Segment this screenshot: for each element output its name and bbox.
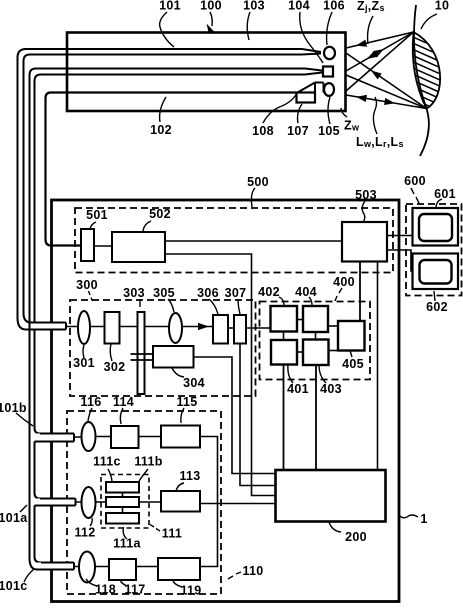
dashed box 600 <box>406 204 462 296</box>
oscillator 405 <box>338 321 365 351</box>
svg-text:116: 116 <box>80 395 101 409</box>
wire fiber 103 pair lower / left tube right line <box>35 73 323 563</box>
driver 502 <box>112 232 165 262</box>
svg-text:111: 111 <box>162 527 182 541</box>
leader 104 <box>300 12 323 63</box>
dashed box 111 <box>101 475 149 529</box>
ferrule bar row 116 <box>36 434 74 442</box>
wire fiber 102 line from 107 down to 501 <box>46 93 297 246</box>
svg-text:101b: 101b <box>0 401 27 415</box>
processor 200 <box>276 470 386 522</box>
leader 10 <box>421 14 437 29</box>
ray arrowhead toward focus Zj <box>373 46 386 57</box>
lens 118 <box>79 552 95 583</box>
detector 107 rect <box>297 93 316 103</box>
filter 403 <box>303 340 329 366</box>
svg-text:118: 118 <box>95 583 116 597</box>
leader 101 <box>160 12 174 47</box>
svg-text:105: 105 <box>318 124 340 138</box>
wire 401 down to 200 <box>283 365 285 471</box>
leader 112 <box>90 518 92 526</box>
wire 503 down to 405 <box>359 262 361 322</box>
leader 304 <box>172 368 184 377</box>
svg-text:307: 307 <box>225 286 247 300</box>
wire 402 to 401 <box>283 332 285 341</box>
leader 502 <box>143 221 151 231</box>
filter 401 <box>271 340 297 365</box>
grating cell 111a <box>106 513 139 524</box>
leader 301 <box>83 345 84 358</box>
dashed box 400 <box>260 302 371 380</box>
svg-text:303: 303 <box>123 286 145 300</box>
leader 101b <box>16 413 33 426</box>
svg-text:502: 502 <box>149 207 171 221</box>
leader 110 dashes <box>228 572 241 579</box>
leader Zj Zs <box>368 16 373 44</box>
leader 105 <box>328 97 330 124</box>
object 10 lens body <box>413 32 440 109</box>
ray arrowhead left lower <box>355 93 367 102</box>
leader 111a <box>123 527 127 539</box>
element 104 square at probe tip <box>323 67 333 77</box>
ferrule bar row 112 <box>36 499 76 506</box>
leader 117 <box>120 580 127 586</box>
leader 103 <box>247 12 250 40</box>
wire 501 to 502 <box>94 245 112 247</box>
svg-text:117: 117 <box>124 583 145 597</box>
svg-text:102: 102 <box>150 123 172 137</box>
block 117 <box>109 559 136 580</box>
ray arrowhead toward Zw lower <box>384 98 396 107</box>
block 113 <box>161 491 200 512</box>
svg-text:404: 404 <box>295 285 317 299</box>
mixer 402 <box>271 306 298 332</box>
amplifier 501 <box>81 229 94 261</box>
svg-text:402: 402 <box>258 285 280 299</box>
ray 105 to lower focus <box>346 95 427 109</box>
svg-text:106: 106 <box>323 0 345 13</box>
svg-text:305: 305 <box>153 286 175 300</box>
lens 112 <box>82 487 96 518</box>
block 119 <box>158 558 200 580</box>
wire 306 to 307 <box>228 327 234 329</box>
leader 404 <box>309 297 312 305</box>
lens 116 <box>82 422 96 451</box>
svg-text:302: 302 <box>104 360 126 374</box>
mirror 108 diagonal <box>298 83 324 103</box>
svg-text:101: 101 <box>159 0 181 13</box>
wire 503 to monitor 602 <box>387 250 413 271</box>
svg-text:Lw,Lr,Ls: Lw,Lr,Ls <box>356 135 404 149</box>
leader 300 dashes <box>89 291 93 301</box>
svg-text:111c: 111c <box>93 455 121 469</box>
grating cell 111c <box>106 482 139 493</box>
ferrule bar into box 300 <box>31 323 66 330</box>
wire row 112 <box>76 501 162 503</box>
leader 113 <box>176 483 184 491</box>
svg-text:119: 119 <box>180 584 201 598</box>
wire 119 to bus <box>200 504 218 567</box>
svg-text:100: 100 <box>200 0 222 13</box>
leader 100 arrow <box>210 12 212 26</box>
leader 1 <box>400 515 418 518</box>
svg-text:103: 103 <box>243 0 265 13</box>
leader 106 <box>327 12 332 45</box>
wire 403 down to 200 <box>315 365 317 470</box>
lens 305 <box>169 313 182 343</box>
svg-text:111a: 111a <box>113 537 141 551</box>
wire 401 to 403 <box>297 351 303 353</box>
leader 601 <box>436 199 442 208</box>
wire 502 down to 200 <box>165 254 276 496</box>
leader 307 <box>238 299 240 314</box>
wire fiber 101 lower line of pair <box>24 54 322 330</box>
ray arrowhead left mid <box>369 68 382 80</box>
wire optical axis in box 300 with arrow <box>66 326 213 328</box>
wire fiber 101 upper pair into probe <box>18 49 322 330</box>
object 10 hatching <box>404 33 449 127</box>
wire 304 to 200 <box>194 357 276 474</box>
svg-text:400: 400 <box>333 275 355 289</box>
svg-text:112: 112 <box>74 526 95 540</box>
svg-text:101c: 101c <box>0 579 28 593</box>
leader 602 <box>434 291 435 301</box>
svg-text:114: 114 <box>113 395 134 409</box>
ray from tip to upper focus Zj <box>346 32 414 48</box>
svg-text:111b: 111b <box>134 455 162 469</box>
main unit box 1 <box>52 200 400 602</box>
wire 303 to 304 link <box>131 354 154 360</box>
wire 115 to bus <box>200 437 218 504</box>
wire 502 to 503 <box>165 240 342 242</box>
ray 104 to upper focus <box>346 32 414 71</box>
leader 600 dashes <box>411 188 419 203</box>
wire 402 to 404 <box>297 319 303 321</box>
leader Zw <box>341 108 347 117</box>
leader 101a <box>20 505 27 512</box>
leader 111 dash <box>150 525 160 532</box>
leader 500 <box>251 188 255 207</box>
lens 301 <box>78 311 90 344</box>
grating cell 111b <box>106 497 139 507</box>
svg-text:403: 403 <box>320 382 342 396</box>
leader 115 <box>181 408 184 423</box>
svg-text:115: 115 <box>176 395 197 409</box>
monitor 601 <box>413 208 459 246</box>
wire 404 to 405 <box>328 325 338 327</box>
wire 503 down to 200 <box>377 262 379 471</box>
svg-text:1: 1 <box>420 512 427 526</box>
modulator 302 <box>105 312 120 344</box>
svg-text:101a: 101a <box>0 511 28 525</box>
filter 306 <box>213 315 228 344</box>
svg-text:300: 300 <box>76 278 98 292</box>
dashed box 110 <box>67 411 221 594</box>
arrowhead in box 300 <box>198 323 209 330</box>
controller 503 <box>342 222 387 262</box>
svg-text:10: 10 <box>435 0 450 13</box>
wire 503 to monitor 601 <box>387 235 413 237</box>
leader Lw Lr Ls <box>373 97 377 134</box>
leader 503 <box>362 201 365 222</box>
svg-text:107: 107 <box>287 124 309 138</box>
svg-text:104: 104 <box>288 0 310 13</box>
svg-text:306: 306 <box>197 286 219 300</box>
wire 307 down to 200 <box>240 344 276 486</box>
leader 116 <box>88 408 92 421</box>
lens 106 at probe tip <box>324 47 335 59</box>
dashed box 300 <box>70 300 256 396</box>
leader 102 <box>160 97 166 122</box>
detector 304 <box>153 346 194 368</box>
wire 111 stack links <box>122 493 124 514</box>
wire 403 to 405 <box>329 350 339 352</box>
leader 101c <box>24 569 34 582</box>
wire 404 to 403 <box>315 332 317 340</box>
leader 119 <box>173 581 182 587</box>
leader 111b <box>139 469 148 481</box>
leader 403 <box>319 365 326 383</box>
block 115 <box>161 426 200 448</box>
leader 114 <box>120 408 123 424</box>
svg-text:600: 600 <box>404 174 426 188</box>
wire row 116 <box>74 436 161 439</box>
svg-text:602: 602 <box>426 300 448 314</box>
ray arrowhead toward probe mid <box>365 51 378 62</box>
leader 200 <box>329 522 341 532</box>
beam splitter 303 <box>138 312 145 394</box>
svg-text:601: 601 <box>434 187 456 201</box>
mixer 404 <box>303 306 328 332</box>
lens 105 at probe tip <box>324 83 334 96</box>
monitor 602 <box>413 254 459 290</box>
leader 405 <box>350 351 352 358</box>
wire fiber 103 pair upper / left tube left line to row 118 <box>30 69 323 570</box>
probe body 100 <box>67 33 346 112</box>
leader 501 <box>90 222 96 229</box>
svg-text:501: 501 <box>86 208 108 222</box>
ray 105 to upper focus <box>346 32 414 91</box>
leader 111c <box>108 469 112 481</box>
detector 307 <box>234 315 246 344</box>
svg-text:405: 405 <box>342 357 364 371</box>
ferrule bar row 118 <box>37 563 74 570</box>
leader 302 <box>110 344 112 361</box>
leader 305 <box>168 299 174 312</box>
svg-text:200: 200 <box>345 530 367 544</box>
svg-text:401: 401 <box>287 382 309 396</box>
svg-text:113: 113 <box>179 469 200 483</box>
leader 402 <box>279 297 284 305</box>
leader 107 <box>298 104 303 123</box>
ray arrowhead left on upper ray <box>355 40 367 49</box>
leader 303 <box>139 299 141 307</box>
ray 104 to lower focus <box>346 75 427 109</box>
dashed box 500 <box>75 208 393 273</box>
leader 118 <box>86 579 97 586</box>
leader 108 <box>263 94 297 124</box>
svg-text:110: 110 <box>242 564 263 578</box>
arrowhead 100 <box>207 24 215 34</box>
svg-text:500: 500 <box>247 175 269 189</box>
wire row 118 <box>74 566 158 568</box>
wire 113 bus to 200 <box>200 503 276 505</box>
svg-text:301: 301 <box>73 356 95 370</box>
svg-text:304: 304 <box>183 376 205 390</box>
ray tip top to lower focus Zw <box>346 53 427 109</box>
svg-text:503: 503 <box>355 188 377 202</box>
svg-text:108: 108 <box>252 124 274 138</box>
leader 401 <box>288 365 293 383</box>
wire 307 to 402 <box>246 327 271 329</box>
leader 306 <box>209 299 218 314</box>
leader 400 dashes <box>335 288 342 301</box>
block 114 <box>111 426 139 448</box>
object 10 eye arc <box>414 5 429 156</box>
